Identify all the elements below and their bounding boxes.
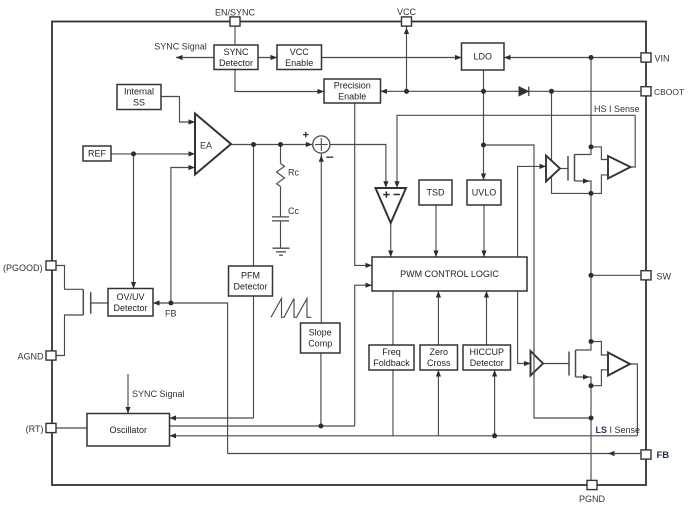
svg-text:Enable: Enable [285, 58, 313, 68]
svg-text:LDO: LDO [474, 52, 493, 62]
svg-text:OV/UV: OV/UV [116, 292, 144, 302]
svg-text:HS I Sense: HS I Sense [594, 104, 640, 114]
svg-text:PWM CONTROL LOGIC: PWM CONTROL LOGIC [400, 269, 499, 279]
svg-text:SW: SW [657, 271, 672, 281]
svg-text:UVLO: UVLO [472, 188, 497, 198]
svg-text:Cross: Cross [427, 358, 451, 368]
svg-text:Enable: Enable [338, 92, 366, 102]
svg-text:Cc: Cc [288, 206, 299, 216]
svg-text:HICCUP: HICCUP [470, 347, 505, 357]
svg-text:SS: SS [133, 98, 145, 108]
svg-text:VIN: VIN [655, 53, 670, 63]
svg-text:Slope: Slope [309, 328, 332, 338]
svg-text:SYNC: SYNC [223, 47, 249, 57]
svg-text:TSD: TSD [427, 188, 446, 198]
svg-text:Freq: Freq [382, 347, 401, 357]
svg-text:VCC: VCC [397, 7, 417, 17]
svg-text:(RT): (RT) [26, 424, 44, 434]
svg-text:AGND: AGND [17, 352, 44, 362]
svg-text:Zero: Zero [430, 347, 449, 357]
svg-text:REF: REF [88, 149, 107, 159]
svg-text:Detector: Detector [219, 58, 253, 68]
svg-text:SYNC Signal: SYNC Signal [154, 42, 207, 52]
svg-text:PFM: PFM [241, 271, 260, 281]
svg-text:FB: FB [657, 450, 670, 461]
svg-text:EN/SYNC: EN/SYNC [215, 8, 256, 18]
svg-text:(PGOOD): (PGOOD) [3, 263, 43, 273]
svg-text:FB: FB [165, 309, 177, 319]
svg-text:CBOOT: CBOOT [654, 87, 684, 97]
svg-text:Detector: Detector [470, 358, 504, 368]
svg-text:PGND: PGND [579, 494, 606, 504]
svg-text:Detector: Detector [233, 282, 267, 292]
svg-text:Rc: Rc [288, 168, 299, 178]
svg-text:Detector: Detector [113, 303, 147, 313]
svg-text:Comp: Comp [308, 339, 332, 349]
svg-text:Foldback: Foldback [373, 358, 410, 368]
svg-text:EA: EA [200, 140, 212, 150]
svg-text:Internal: Internal [124, 87, 154, 97]
svg-text:SYNC Signal: SYNC Signal [132, 389, 185, 399]
svg-text:VCC: VCC [290, 47, 310, 57]
svg-text:Precision: Precision [334, 81, 371, 91]
svg-text:LS I Sense: LS I Sense [596, 425, 641, 435]
svg-text:Oscillator: Oscillator [109, 425, 147, 435]
